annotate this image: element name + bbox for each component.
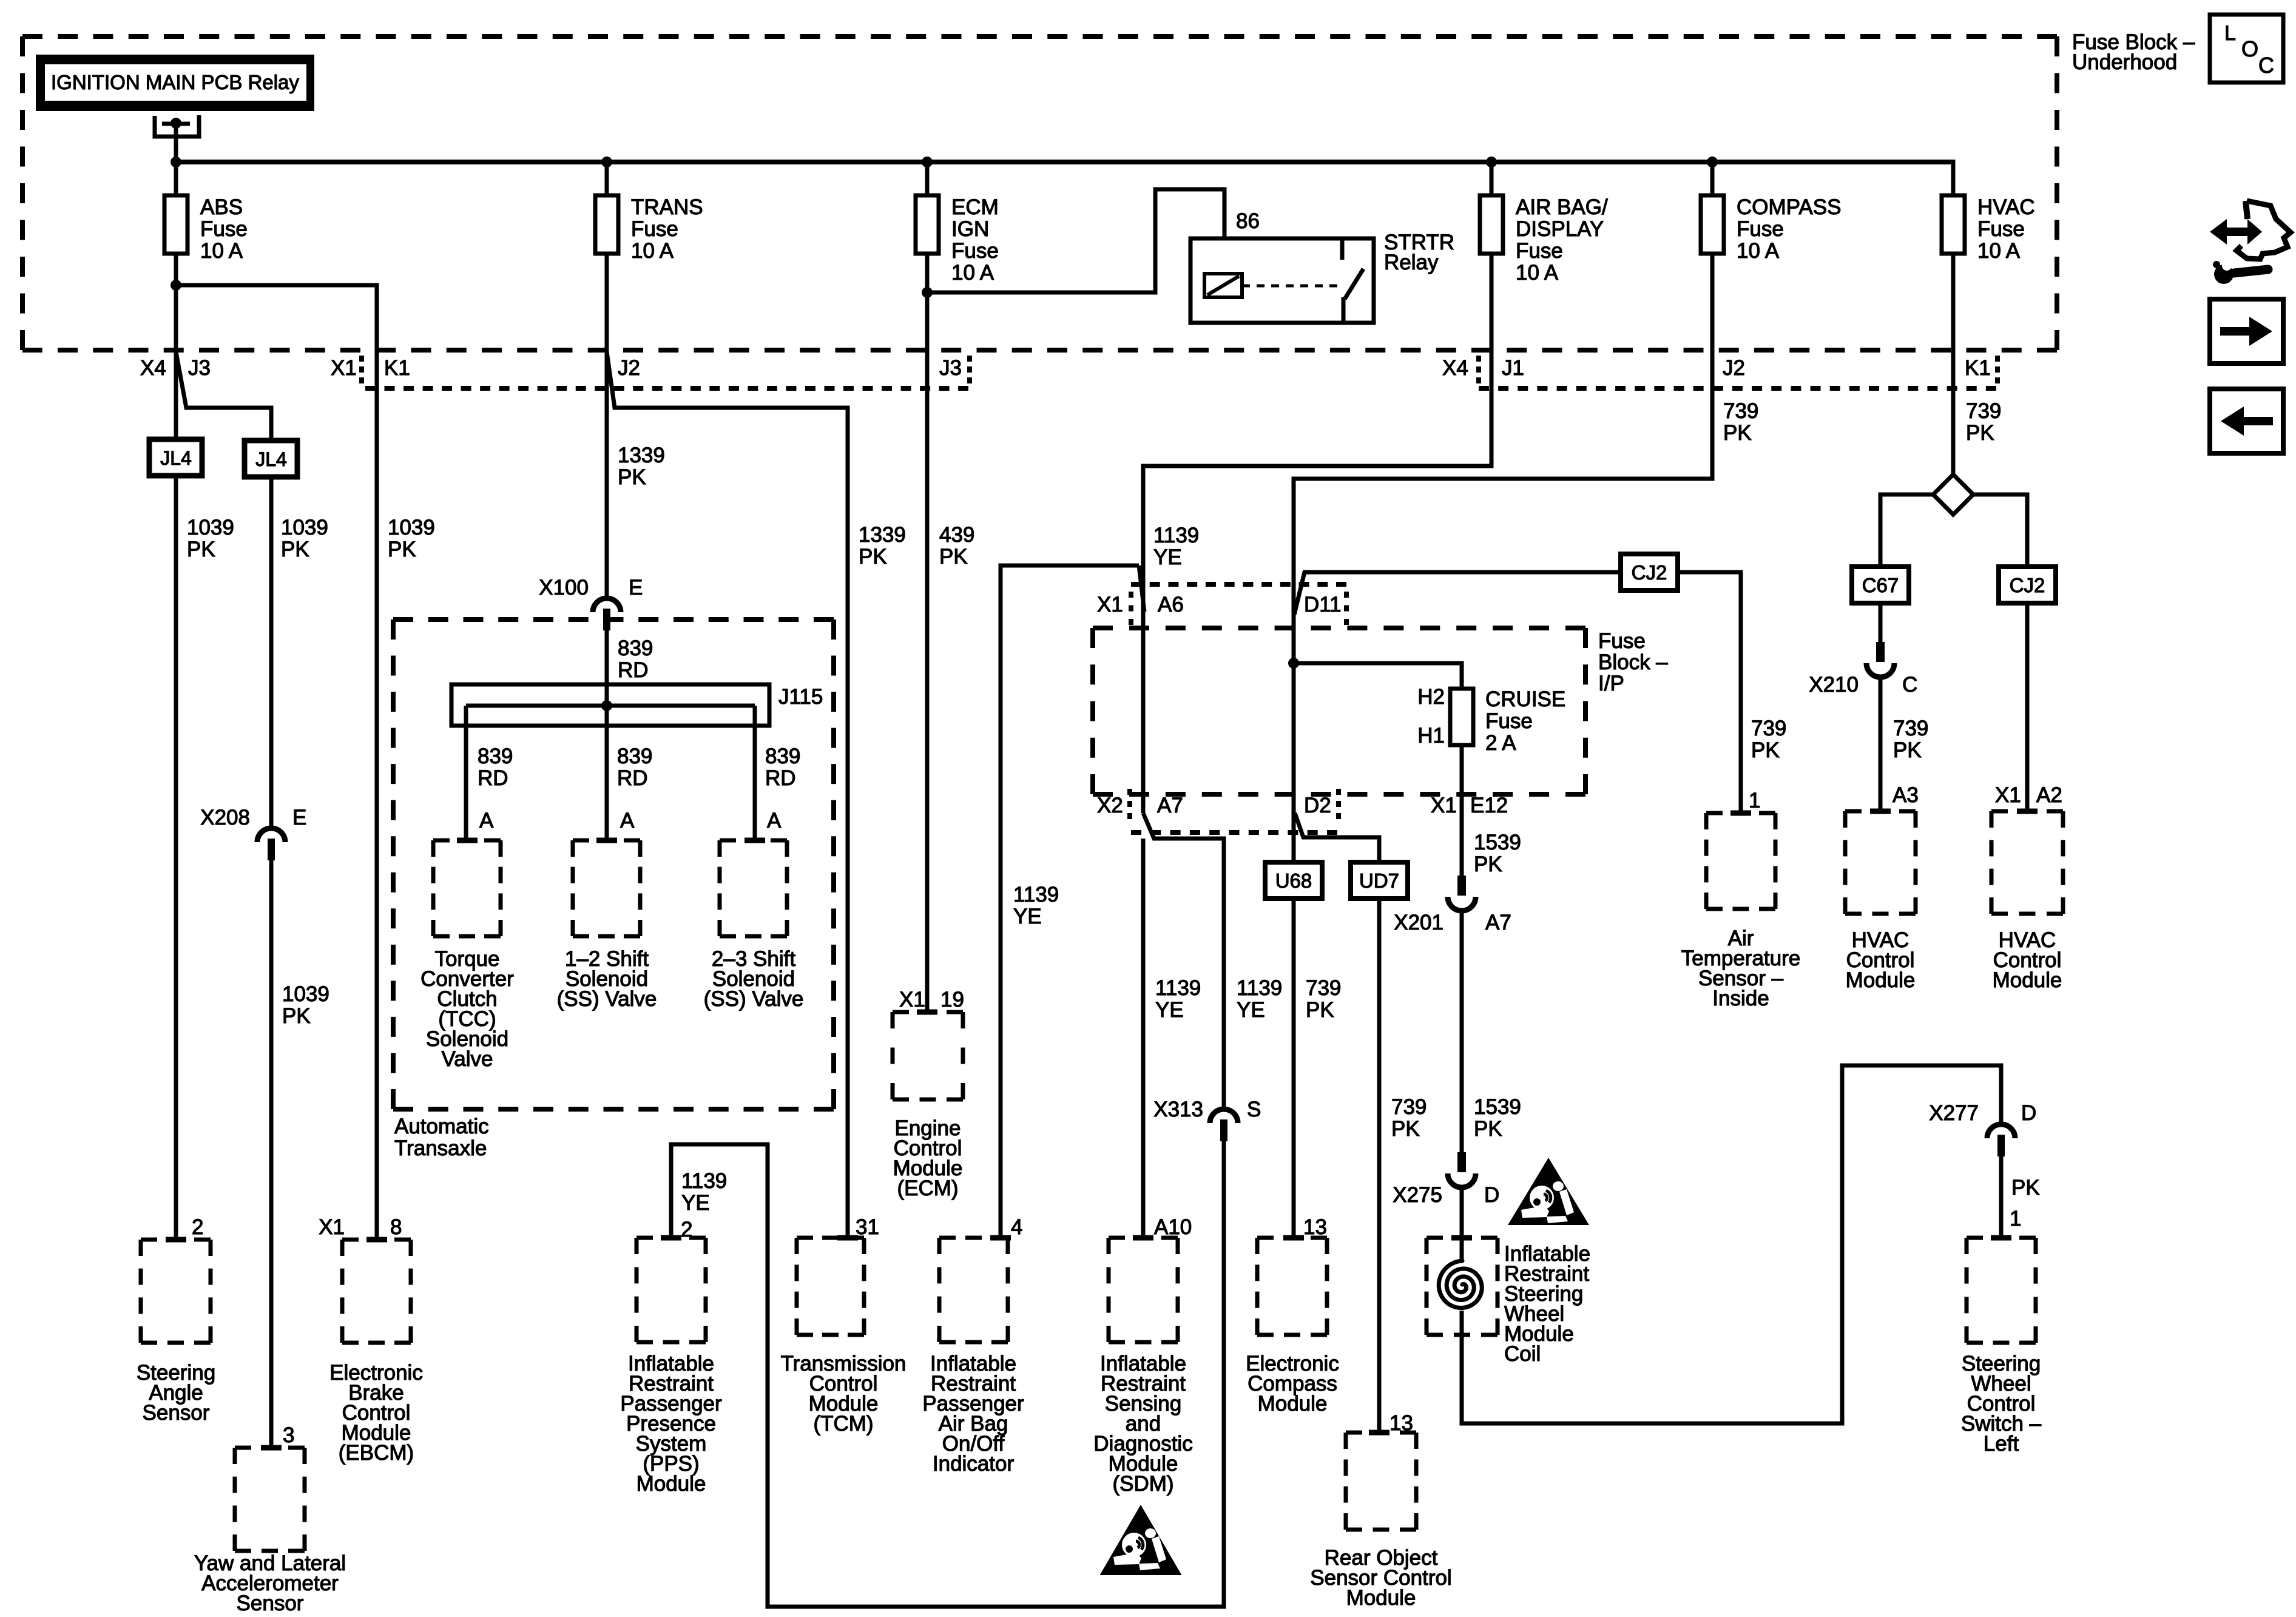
svg-text:J2: J2 — [618, 356, 640, 380]
svg-text:2 A: 2 A — [1485, 731, 1516, 755]
connector row X2-A7-D2-X1-E12 — [1131, 830, 1337, 835]
separator J3 — [967, 356, 972, 383]
svg-text:(SS) Valve: (SS) Valve — [557, 987, 657, 1011]
svg-text:PK: PK — [1751, 738, 1780, 762]
svg-text:Sensor: Sensor — [237, 1592, 304, 1615]
splice box CJ2 right — [1999, 567, 2056, 603]
svg-text:L: L — [2224, 22, 2236, 45]
wire branch to STRTR relay coil 86 — [927, 189, 1224, 292]
svg-text:X275: X275 — [1393, 1183, 1442, 1207]
wire J3 slant split — [176, 352, 271, 441]
wire AIRBAG fuse to J1 — [1490, 254, 1494, 352]
component box SDM — [1109, 1236, 1178, 1240]
wire bus to AIRBAG fuse — [1490, 162, 1494, 195]
wire J115 to TCC solenoid — [464, 706, 468, 840]
svg-text:1339: 1339 — [618, 444, 665, 467]
svg-text:IGN: IGN — [951, 217, 989, 241]
svg-text:PK: PK — [388, 538, 416, 561]
separator X4/J1 — [1476, 356, 1481, 383]
svg-text:31: 31 — [856, 1215, 879, 1239]
svg-text:739: 739 — [1391, 1095, 1427, 1119]
junction node I/P cruise branch — [1288, 658, 1299, 669]
fuse block I/P dashed box — [1093, 626, 1585, 630]
wire relay output to bus — [174, 123, 178, 162]
wire X313 to PPS U-route — [671, 1141, 1224, 1607]
svg-text:A6: A6 — [1158, 593, 1184, 616]
svg-text:(SS) Valve: (SS) Valve — [704, 987, 804, 1011]
svg-text:Fuse: Fuse — [951, 239, 999, 263]
svg-text:10 A: 10 A — [1977, 239, 2021, 263]
svg-text:Transaxle: Transaxle — [394, 1136, 487, 1160]
bus wire ignition feed — [174, 160, 1953, 164]
svg-text:E: E — [292, 806, 306, 829]
svg-text:839: 839 — [617, 744, 652, 768]
svg-text:1539: 1539 — [1474, 831, 1521, 854]
connector boundary dotted line right — [1479, 386, 1996, 391]
svg-text:1139: 1139 — [1237, 976, 1282, 1000]
svg-text:X1: X1 — [899, 988, 925, 1011]
relay STRTR switch — [1340, 238, 1345, 260]
svg-text:H1: H1 — [1417, 724, 1445, 748]
svg-text:Module: Module — [1993, 968, 2062, 992]
wire slant at A7 branch to X313 — [1143, 813, 1224, 1110]
svg-text:Underhood: Underhood — [2072, 50, 2177, 74]
wire 739 PK COMPASS to D11 — [1294, 352, 1712, 663]
svg-text:X1: X1 — [1995, 783, 2021, 807]
connector X275 D — [1457, 1152, 1466, 1172]
svg-text:Left: Left — [1984, 1432, 2019, 1456]
wire CJ2 to HVAC control module A2 — [2025, 604, 2030, 809]
wire 1039 PK to X208 — [269, 477, 274, 829]
svg-text:D11: D11 — [1304, 593, 1342, 616]
svg-text:739: 739 — [1893, 717, 1928, 740]
wire COMPASS fuse to J2 — [1710, 254, 1715, 352]
svg-text:PK: PK — [859, 545, 887, 569]
component box air bag on/off indicator — [939, 1236, 1008, 1240]
component box 1-2 shift solenoid valve — [573, 839, 640, 843]
svg-text:(SDM): (SDM) — [1112, 1472, 1173, 1496]
svg-text:X1: X1 — [1431, 794, 1457, 817]
svg-text:X100: X100 — [539, 576, 589, 599]
wire 1139 YE A7 to SDM — [1141, 839, 1146, 1238]
wire X275 to coil module — [1460, 1187, 1464, 1238]
warning triangle SDM — [1100, 1505, 1182, 1575]
svg-text:839: 839 — [618, 636, 653, 660]
svg-text:439: 439 — [939, 523, 974, 547]
svg-text:4: 4 — [1011, 1215, 1022, 1239]
wire J115 to 1-2 shift solenoid — [605, 706, 609, 840]
svg-text:J2: J2 — [1723, 356, 1745, 380]
option box U68 — [1265, 862, 1322, 899]
svg-text:ECM: ECM — [951, 195, 999, 219]
svg-text:A10: A10 — [1154, 1215, 1192, 1239]
component box electronic compass module — [1257, 1236, 1327, 1240]
svg-text:PK: PK — [1893, 738, 1922, 762]
icon arrow right box — [2210, 299, 2283, 363]
svg-text:CRUISE: CRUISE — [1485, 687, 1565, 711]
svg-text:X4: X4 — [140, 356, 166, 380]
svg-text:10 A: 10 A — [200, 239, 243, 263]
svg-text:A: A — [479, 809, 494, 832]
svg-text:CJ2: CJ2 — [2010, 574, 2045, 596]
svg-text:Inside: Inside — [1712, 987, 1769, 1010]
relay STRTR coil — [1204, 274, 1242, 297]
component box steering wheel control switch left — [1967, 1236, 2036, 1240]
wire bus to ECM fuse — [925, 162, 930, 195]
svg-text:J3: J3 — [188, 356, 211, 380]
svg-text:E: E — [629, 576, 643, 599]
junction node ECM-relay branch — [922, 287, 933, 298]
svg-text:Fuse: Fuse — [1977, 217, 2025, 241]
connector X201 A7 — [1457, 876, 1466, 896]
wire through coil module down and right — [1462, 1065, 2001, 1423]
svg-text:739: 739 — [1751, 717, 1786, 740]
svg-text:K1: K1 — [384, 356, 410, 380]
wire TRANS fuse to J2 — [605, 254, 609, 352]
wire CJ2 splice to D11 — [1294, 572, 1621, 615]
connector row X1-A6-D11 dotted line — [1131, 582, 1346, 587]
svg-text:D: D — [1484, 1183, 1499, 1207]
svg-text:Fuse: Fuse — [1737, 217, 1784, 241]
wire branch to K1 — [176, 285, 377, 352]
svg-text:J115: J115 — [778, 685, 823, 709]
svg-text:(TCM): (TCM) — [813, 1412, 873, 1436]
svg-text:Fuse: Fuse — [200, 217, 248, 241]
svg-text:JL4: JL4 — [255, 448, 287, 470]
svg-text:Fuse: Fuse — [1485, 709, 1533, 733]
component box 2-3 shift solenoid valve — [720, 839, 787, 843]
junction node J115 center — [601, 700, 612, 711]
svg-text:A: A — [767, 809, 782, 832]
svg-text:Relay: Relay — [1384, 251, 1439, 274]
wire slant at A6 — [1139, 565, 1144, 612]
separator K1 right — [1995, 356, 2000, 383]
svg-text:PK: PK — [939, 545, 968, 569]
wire diamond to C67 — [1880, 495, 1933, 566]
svg-text:PK: PK — [1474, 852, 1502, 876]
splice box C67 — [1852, 567, 1909, 603]
svg-text:Module: Module — [1346, 1586, 1416, 1610]
svg-text:1039: 1039 — [388, 516, 435, 539]
svg-text:J1: J1 — [1502, 356, 1524, 380]
svg-text:A7: A7 — [1157, 794, 1183, 817]
svg-text:J3: J3 — [939, 356, 962, 380]
svg-text:YE: YE — [681, 1191, 710, 1215]
wire bus to COMPASS fuse — [1710, 162, 1715, 195]
svg-text:1: 1 — [1749, 789, 1760, 812]
svg-text:PK: PK — [1966, 421, 1994, 445]
svg-text:19: 19 — [940, 988, 964, 1011]
splice diamond — [1933, 474, 1973, 515]
svg-text:739: 739 — [1966, 399, 2001, 423]
svg-text:YE: YE — [1237, 998, 1265, 1022]
fuse F-COMPASS 10A — [1701, 195, 1724, 254]
svg-text:Fuse: Fuse — [631, 217, 678, 241]
component box EBCM — [342, 1238, 411, 1242]
connector boundary dotted line left — [365, 386, 968, 391]
wire 1139 YE AIRBAG to A6 — [1143, 352, 1491, 813]
svg-text:X1: X1 — [331, 356, 357, 380]
component box steering wheel coil — [1427, 1236, 1497, 1240]
component box PPS module — [636, 1236, 706, 1240]
svg-text:739: 739 — [1306, 976, 1341, 1000]
icon LOC box — [2210, 15, 2283, 83]
svg-text:A2: A2 — [2036, 783, 2062, 807]
wire 739 PK K1 to splice diamond — [1951, 352, 1956, 474]
svg-text:Indicator: Indicator — [933, 1452, 1015, 1476]
warning triangle coil — [1508, 1158, 1589, 1225]
relay STRTR link dashed — [1242, 285, 1338, 288]
option box JL4 right — [245, 441, 297, 477]
fuse F-ECM-IGN 10A — [916, 195, 939, 254]
svg-text:IGNITION MAIN PCB Relay: IGNITION MAIN PCB Relay — [51, 71, 299, 93]
svg-text:RD: RD — [765, 766, 796, 790]
wire branch to CRUISE fuse — [1294, 663, 1462, 689]
component box air temperature sensor inside — [1706, 811, 1775, 815]
junction node bus-TRANS — [601, 157, 612, 167]
svg-text:X1: X1 — [319, 1215, 345, 1239]
svg-text:3: 3 — [283, 1423, 294, 1447]
svg-text:UD7: UD7 — [1359, 869, 1399, 892]
svg-text:RD: RD — [478, 766, 508, 790]
svg-text:C: C — [2258, 53, 2274, 78]
svg-text:Fuse: Fuse — [1516, 239, 1563, 263]
wire branch A6 to air bag indicator — [1001, 565, 1139, 1238]
component box steering angle sensor — [141, 1238, 211, 1242]
wire D2 to U68 compass module — [1292, 663, 1296, 862]
wire C67 to X210 — [1879, 604, 1883, 642]
svg-text:1139: 1139 — [1013, 883, 1059, 906]
fuse F-AIRBAG-DISPLAY 10A — [1480, 195, 1503, 254]
connector X277 D — [1987, 1124, 2015, 1138]
wire UD7 to rear object sensor module — [1377, 899, 1382, 1433]
connector X313 S — [1210, 1109, 1238, 1123]
svg-text:HVAC: HVAC — [1977, 195, 2035, 219]
svg-text:JL4: JL4 — [160, 447, 192, 469]
junction node ABS-K1 branch — [171, 280, 181, 291]
svg-text:PK: PK — [618, 465, 646, 489]
svg-text:RD: RD — [618, 658, 649, 682]
junction node bus-ECM — [922, 157, 933, 167]
svg-text:D2: D2 — [1304, 794, 1331, 817]
wire 1339 PK J2 to X100 — [605, 352, 609, 599]
svg-text:X2: X2 — [1097, 794, 1123, 817]
wire ABS fuse to J3 — [174, 254, 178, 352]
svg-text:Sensor: Sensor — [143, 1401, 210, 1425]
wire bus to ABS fuse — [174, 162, 178, 195]
icon arrow left box — [2210, 389, 2283, 453]
svg-text:739: 739 — [1723, 399, 1758, 423]
splice pack J115 bus bar — [466, 704, 755, 708]
wire U68 to electronic compass module — [1292, 899, 1296, 1238]
svg-text:PK: PK — [1391, 1117, 1420, 1141]
svg-text:YE: YE — [1013, 905, 1042, 928]
component box TCC solenoid valve — [433, 839, 501, 843]
wire diamond to CJ2 right — [1973, 495, 2027, 566]
svg-text:13: 13 — [1303, 1215, 1327, 1239]
svg-text:PK: PK — [1474, 1117, 1502, 1141]
fuse F-HVAC 10A — [1942, 195, 1965, 254]
svg-text:(EBCM): (EBCM) — [339, 1441, 414, 1465]
svg-text:H2: H2 — [1417, 685, 1445, 709]
svg-text:X210: X210 — [1809, 673, 1859, 697]
connector X100 E — [593, 598, 621, 612]
relay output contact symbol — [155, 115, 199, 137]
svg-text:1039: 1039 — [187, 516, 234, 539]
svg-text:8: 8 — [390, 1215, 402, 1239]
svg-text:TRANS: TRANS — [631, 195, 703, 219]
svg-text:ABS: ABS — [200, 195, 243, 219]
svg-text:X4: X4 — [1442, 356, 1468, 380]
option box UD7 — [1351, 862, 1408, 899]
wire slant at D2 branch — [1295, 813, 1379, 862]
svg-text:Valve: Valve — [442, 1047, 493, 1071]
automatic transaxle dashed box — [393, 617, 834, 622]
svg-text:AIR BAG/: AIR BAG/ — [1516, 195, 1608, 219]
connector X210 C — [1876, 642, 1885, 662]
component box TCM — [797, 1236, 864, 1240]
svg-text:Module: Module — [1258, 1392, 1328, 1416]
svg-text:1039: 1039 — [282, 982, 329, 1006]
svg-text:10 A: 10 A — [1516, 261, 1559, 285]
svg-text:X201: X201 — [1394, 911, 1443, 934]
svg-text:A: A — [620, 809, 635, 832]
svg-text:D: D — [2021, 1101, 2036, 1125]
svg-text:1139: 1139 — [681, 1169, 727, 1193]
svg-text:YE: YE — [1155, 998, 1184, 1022]
svg-text:X277: X277 — [1929, 1101, 1979, 1125]
svg-text:RD: RD — [617, 766, 648, 790]
junction node bus-ABS — [171, 157, 181, 167]
connector X208 E — [257, 828, 285, 842]
fuse F-CRUISE 2A — [1450, 689, 1473, 745]
svg-text:X313: X313 — [1153, 1098, 1203, 1121]
svg-text:10 A: 10 A — [1737, 239, 1780, 263]
svg-text:PK: PK — [1723, 421, 1752, 445]
relay STRTR box — [1190, 238, 1374, 323]
svg-text:K1: K1 — [1965, 356, 1991, 380]
svg-text:839: 839 — [765, 744, 800, 768]
wire 839 RD X100 to J115 — [605, 630, 609, 706]
svg-text:COMPASS: COMPASS — [1737, 195, 1841, 219]
wire bus to TRANS fuse — [605, 162, 609, 195]
svg-text:86: 86 — [1236, 209, 1260, 233]
svg-text:Module: Module — [636, 1472, 706, 1496]
svg-text:1039: 1039 — [281, 516, 328, 539]
svg-text:U68: U68 — [1275, 869, 1312, 892]
component box rear object sensor control module — [1346, 1431, 1416, 1435]
svg-text:A7: A7 — [1485, 911, 1511, 934]
svg-text:Fuse: Fuse — [1598, 629, 1646, 653]
coil spiral symbol — [1460, 1238, 1464, 1262]
svg-text:1: 1 — [2010, 1207, 2021, 1230]
wire 1039 PK to steering angle sensor — [174, 476, 178, 1240]
svg-text:CJ2: CJ2 — [1632, 561, 1667, 584]
svg-text:Module: Module — [1846, 968, 1916, 992]
icon transaxle service double arrow — [2210, 219, 2262, 245]
junction node bus-COMPASS — [1707, 157, 1718, 167]
svg-text:YE: YE — [1153, 545, 1182, 569]
svg-text:PK: PK — [187, 538, 215, 561]
icon wrench — [2214, 265, 2234, 284]
wire J115 to 2-3 shift solenoid — [753, 706, 757, 840]
svg-text:PK: PK — [282, 1004, 311, 1028]
splice box CJ2 left — [1621, 554, 1678, 590]
svg-text:X208: X208 — [200, 806, 250, 829]
wire 1039 PK X208 to yaw sensor — [269, 860, 274, 1448]
wire X210 to HVAC control module A3 — [1879, 677, 1883, 809]
component box HVAC control module A2 — [1991, 809, 2063, 814]
fuse block underhood dashed box — [22, 34, 2057, 39]
wire X277 to steering wheel switch — [1999, 1156, 2004, 1238]
wire ECM fuse down to ECM — [925, 254, 930, 1010]
component box yaw and lateral accelerometer sensor — [235, 1446, 305, 1450]
svg-text:839: 839 — [478, 744, 513, 768]
svg-text:1339: 1339 — [859, 523, 906, 547]
splice pack J115 outer box — [451, 684, 769, 726]
wire X201 to X275 — [1460, 911, 1464, 1152]
svg-text:2: 2 — [192, 1215, 203, 1239]
svg-text:(ECM): (ECM) — [897, 1176, 958, 1200]
svg-text:O: O — [2241, 36, 2258, 61]
svg-text:10 A: 10 A — [951, 261, 994, 285]
svg-text:PK: PK — [281, 538, 309, 561]
svg-text:PK: PK — [1306, 998, 1334, 1022]
wire CJ2 to air temperature sensor — [1677, 572, 1741, 811]
component box ECM — [893, 1010, 963, 1014]
svg-text:1139: 1139 — [1155, 976, 1201, 1000]
svg-text:Block –: Block – — [1598, 650, 1668, 674]
wire HVAC fuse to K1 — [1951, 254, 1956, 352]
wire 1039 PK K1 to EBCM — [375, 352, 379, 1240]
wire J2 slant branch to TCM — [607, 352, 848, 1238]
svg-text:X1: X1 — [1097, 593, 1123, 616]
wire CRUISE fuse to E12 — [1460, 745, 1464, 876]
svg-text:A3: A3 — [1893, 783, 1919, 807]
svg-text:Automatic: Automatic — [394, 1115, 489, 1138]
component box HVAC control module A3 — [1845, 809, 1916, 814]
relay K9 IGNITION MAIN PCB Relay label box — [36, 55, 314, 111]
svg-text:C: C — [1902, 673, 1917, 697]
svg-text:DISPLAY: DISPLAY — [1516, 217, 1604, 241]
option box JL4 left — [149, 439, 202, 476]
icon transaxle outline — [2237, 201, 2291, 259]
separator X1/K1 — [359, 356, 364, 383]
junction node bus-AIRBAG — [1486, 157, 1497, 167]
svg-text:S: S — [1247, 1098, 1261, 1121]
wire bus corner to HVAC fuse — [1951, 160, 1956, 195]
wire J3 straight to JL4 — [174, 352, 178, 439]
fuse F-ABS 10A — [164, 195, 187, 254]
svg-text:I/P: I/P — [1598, 672, 1624, 695]
svg-text:10 A: 10 A — [631, 239, 674, 263]
svg-text:C67: C67 — [1862, 574, 1899, 596]
svg-text:PK: PK — [2011, 1176, 2040, 1200]
svg-text:Coil: Coil — [1504, 1342, 1541, 1366]
svg-text:1139: 1139 — [1153, 524, 1199, 547]
svg-text:1539: 1539 — [1474, 1095, 1521, 1119]
fuse F-TRANS 10A — [595, 195, 618, 254]
svg-text:E12: E12 — [1470, 794, 1508, 817]
